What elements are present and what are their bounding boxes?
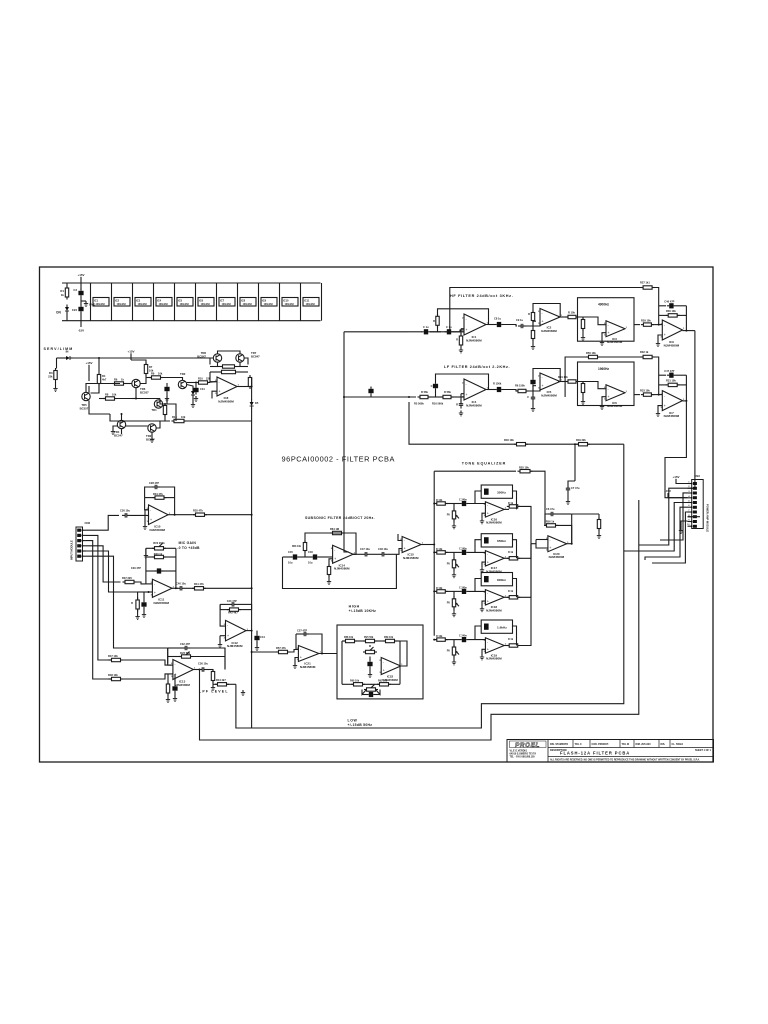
wire IC1 feedback xyxy=(438,309,489,325)
svg-text:R40 1k: R40 1k xyxy=(154,552,163,556)
svg-text:100nJ63: 100nJ63 xyxy=(306,304,316,306)
resistor R12 xyxy=(222,370,236,373)
resistor R47 out xyxy=(218,683,227,686)
EQ band 650Hz out wire xyxy=(518,544,531,559)
svg-text:-: - xyxy=(466,317,468,321)
svg-text:DIS. STAMPATO: DIS. STAMPATO xyxy=(550,743,568,746)
svg-text:R34 47k: R34 47k xyxy=(153,492,163,496)
svg-text:R: R xyxy=(456,338,458,342)
resistor R54 top xyxy=(520,470,530,473)
op-amp IC22 shelf xyxy=(381,658,401,675)
svg-text:R44 4k7: R44 4k7 xyxy=(216,678,226,682)
svg-text:C29 47P: C29 47P xyxy=(131,566,141,570)
power rail bottom xyxy=(62,320,321,322)
svg-text:C46 47P: C46 47P xyxy=(664,300,674,304)
wire IC15 out to bus xyxy=(421,544,434,546)
svg-text:R 10k: R 10k xyxy=(436,548,443,551)
resistor R43 in1 xyxy=(112,658,121,661)
fcap C30 xyxy=(164,387,169,391)
svg-text:CN2: CN2 xyxy=(85,521,91,525)
svg-text:R 10k: R 10k xyxy=(436,635,443,638)
capacitor C38 eq out xyxy=(550,512,552,516)
resistor R44 in2 xyxy=(112,677,121,680)
resistor IC2 gnd leg xyxy=(533,321,536,330)
ground xyxy=(55,382,57,386)
potentiometer RV6 box xyxy=(366,650,375,653)
connector CN2 xyxy=(76,527,83,561)
op-amp IC10 xyxy=(149,505,169,525)
GND node xyxy=(80,298,82,306)
svg-text:10u: 10u xyxy=(308,561,313,565)
op-amp IC13 lpf xyxy=(173,660,194,680)
svg-text:C44: C44 xyxy=(260,635,265,639)
svg-text:-: - xyxy=(404,539,406,543)
svg-text:R13: R13 xyxy=(172,415,177,419)
CN3 pin 5 xyxy=(688,502,692,504)
svg-text:+15V: +15V xyxy=(85,361,92,365)
svg-text:+: + xyxy=(219,389,221,393)
CN3 wire 1 xyxy=(639,488,688,545)
resistor R10 xyxy=(199,381,208,384)
svg-text:RV: RV xyxy=(447,601,451,604)
diode D5 xyxy=(250,402,254,406)
resistor R24 rung xyxy=(659,314,667,316)
bypass capacitor C9 xyxy=(219,298,235,307)
svg-text:R31 10k: R31 10k xyxy=(666,379,676,383)
svg-text:R57 47k: R57 47k xyxy=(276,646,286,650)
svg-text:NJM4580M: NJM4580M xyxy=(150,528,166,532)
drawing border frame xyxy=(40,267,714,762)
feedback box LPF xyxy=(167,648,169,663)
wire box left leg xyxy=(341,641,343,684)
wire mic out xyxy=(172,587,178,589)
svg-text:100nJ63: 100nJ63 xyxy=(285,304,295,306)
svg-text:HF FILTER 24dB/oct 3KHz.: HF FILTER 24dB/oct 3KHz. xyxy=(450,294,513,298)
EQ band 800Hz out wire xyxy=(518,544,531,598)
wire subsonic out xyxy=(353,553,362,555)
wire stage1 to stage2 xyxy=(98,384,100,394)
svg-text:C43 47P: C43 47P xyxy=(227,599,237,603)
svg-text:IC1: IC1 xyxy=(94,298,99,302)
potentiometer RV3 xyxy=(182,655,191,658)
wire TR3 emitter xyxy=(160,399,167,405)
svg-text:C 240n: C 240n xyxy=(459,635,467,638)
ground IC21 xyxy=(295,658,298,664)
wire pin5 link xyxy=(688,516,701,518)
svg-text:IC3: IC3 xyxy=(136,298,141,302)
svg-text:IC11: IC11 xyxy=(304,298,310,302)
EQ band 800Hz ground xyxy=(482,601,485,606)
svg-text:TR3: TR3 xyxy=(180,372,186,376)
svg-text:-: - xyxy=(300,648,302,652)
ground RV2 xyxy=(145,548,147,553)
svg-text:R: R xyxy=(433,319,435,323)
svg-text:R37 220: R37 220 xyxy=(122,576,132,580)
fcap C42 bottom xyxy=(369,692,373,697)
svg-text:TEL - FAX 0861/88.105: TEL - FAX 0861/88.105 xyxy=(510,756,536,759)
EQ band 650Hz op-amp xyxy=(485,551,504,566)
op-amp output node xyxy=(237,386,252,388)
svg-text:R3: R3 xyxy=(49,371,53,375)
resistor R51 lf loop2 xyxy=(643,355,652,358)
wire summing in xyxy=(531,543,536,545)
EQ band 800Hz fcap series xyxy=(462,589,466,594)
svg-text:100nJ63: 100nJ63 xyxy=(117,304,127,306)
svg-text:R 150k: R 150k xyxy=(493,382,502,386)
EQ band 1.6kHz output resistor xyxy=(504,645,509,647)
svg-text:C47 10u: C47 10u xyxy=(360,547,370,551)
CN3 wire 5 xyxy=(660,493,688,540)
svg-text:TR1: TR1 xyxy=(151,408,157,412)
EQ band 800Hz feedback box xyxy=(481,573,512,586)
capacitor C23 xyxy=(157,568,161,573)
CN2 wire fan 4 xyxy=(86,546,121,582)
svg-text:10k: 10k xyxy=(112,393,117,397)
resistor R61 box xyxy=(386,639,395,642)
svg-text:R42 4k7: R42 4k7 xyxy=(228,611,238,615)
EQ band 800Hz fcap xyxy=(484,576,489,582)
capacitor IC1a xyxy=(424,329,428,334)
EQ band 1.6kHz out wire xyxy=(518,544,531,646)
svg-text:100nJ63: 100nJ63 xyxy=(180,304,190,306)
svg-text:R33 10k: R33 10k xyxy=(640,388,650,392)
CN2 wire fan 2 xyxy=(86,535,108,660)
svg-text:RV5 50k: RV5 50k xyxy=(364,636,374,639)
svg-text:+: + xyxy=(487,648,489,652)
svg-text:+: + xyxy=(664,404,666,408)
transistor TR6 xyxy=(132,379,140,387)
svg-text:C36 10u: C36 10u xyxy=(198,662,208,666)
svg-text:R 10k: R 10k xyxy=(436,499,443,502)
op-amp IC15 buffer xyxy=(402,537,421,553)
wire R8 node xyxy=(115,398,132,400)
ground IC6a leg xyxy=(602,397,606,404)
ground CN3 xyxy=(681,521,688,528)
wire to EQ buffer xyxy=(396,549,402,555)
bypass capacitor C5 xyxy=(135,298,151,307)
op-amp IC6a xyxy=(606,385,625,401)
power rail top xyxy=(62,282,321,284)
op-amp IC8 xyxy=(217,377,237,396)
resistor R3 xyxy=(56,358,58,369)
svg-text:NJM4580M: NJM4580M xyxy=(486,608,502,612)
cap C31 xyxy=(193,388,198,392)
svg-text:NJM4580M: NJM4580M xyxy=(334,567,350,571)
LF input wire xyxy=(344,396,416,398)
svg-text:IN: IN xyxy=(66,350,69,354)
svg-text:+: + xyxy=(404,547,406,551)
resistor IC1 gnd leg xyxy=(461,328,464,330)
svg-text:-: - xyxy=(383,660,385,664)
bypass capacitor C8 xyxy=(198,298,214,307)
EQ band 350Hz box drop xyxy=(475,491,481,504)
resistor R25 hf loop xyxy=(643,286,652,289)
CN2 pin 2 xyxy=(82,535,84,537)
ground mark xyxy=(242,690,244,693)
svg-text:R47 10k: R47 10k xyxy=(108,654,118,658)
capacitor C2 xyxy=(80,279,82,290)
resistor R45 below xyxy=(167,674,169,684)
svg-text:+: + xyxy=(383,669,385,673)
svg-text:350Hz: 350Hz xyxy=(497,490,506,494)
capacitor C20 xyxy=(124,513,126,518)
resistor R39 out xyxy=(195,587,204,590)
EQ band 350Hz feedback box xyxy=(481,485,512,498)
svg-text:NJM4580M: NJM4580M xyxy=(486,521,502,525)
svg-text:R46 10k: R46 10k xyxy=(504,438,514,442)
EQ band 650Hz box drop xyxy=(475,540,481,553)
ground IC3b xyxy=(658,335,662,341)
resistor R21 xyxy=(568,315,576,318)
svg-text:IC7: IC7 xyxy=(220,298,225,302)
svg-text:10u: 10u xyxy=(288,561,293,565)
svg-text:R27 1k1: R27 1k1 xyxy=(640,281,650,285)
bypass capacitor C4 xyxy=(114,298,130,307)
svg-text:INPUT MODULE: INPUT MODULE xyxy=(70,540,74,560)
EQ band 1.6kHz pot xyxy=(453,640,455,648)
op-amp IC21 shelf in xyxy=(298,646,319,662)
resistor R13 long wire xyxy=(110,414,170,421)
wire input xyxy=(57,357,64,359)
bypass capacitor C3 xyxy=(93,298,109,307)
svg-text:+: + xyxy=(227,634,229,638)
svg-text:C 240n: C 240n xyxy=(459,547,467,550)
svg-text:+: + xyxy=(608,395,610,399)
resistor R63 bottom xyxy=(380,683,389,686)
shelf network box xyxy=(337,625,423,699)
title cell divider xyxy=(619,740,621,748)
left crossover bus wire xyxy=(344,332,349,552)
svg-text:SUBSONIC FILTER 24dB/OCT 20Hz.: SUBSONIC FILTER 24dB/OCT 20Hz. xyxy=(305,516,375,520)
svg-text:R63 10k: R63 10k xyxy=(292,545,302,548)
svg-text:+: + xyxy=(466,328,468,332)
resistor R1 xyxy=(66,283,68,287)
svg-text:100nJ63: 100nJ63 xyxy=(201,304,211,306)
EQ band 650Hz input resistor xyxy=(437,551,446,554)
capacitor C17 rung xyxy=(659,374,666,376)
svg-text:R58 10k: R58 10k xyxy=(344,636,354,639)
svg-text:C9 1u: C9 1u xyxy=(516,318,523,322)
svg-text:-: - xyxy=(150,508,152,512)
svg-text:POWER AMP MODULE: POWER AMP MODULE xyxy=(706,504,710,532)
svg-text:+/-15dB 10KHz: +/-15dB 10KHz xyxy=(349,609,377,613)
capacitor IC4b xyxy=(443,395,451,398)
svg-text:R 56k: R 56k xyxy=(421,390,428,394)
svg-text:-: - xyxy=(542,311,544,315)
svg-text:R5 560k: R5 560k xyxy=(414,402,424,406)
wire IC10 out xyxy=(168,514,195,516)
svg-text:R6 150k: R6 150k xyxy=(515,384,525,388)
wire HF input xyxy=(409,331,423,333)
capacitor C37 out xyxy=(381,552,383,557)
ground C7 xyxy=(598,533,600,536)
svg-text:R8: R8 xyxy=(105,393,109,397)
wire HF out down xyxy=(688,331,695,489)
capacitor IC4a xyxy=(420,395,428,398)
title cell divider xyxy=(658,740,660,748)
fcap C33 xyxy=(172,686,177,690)
resistor R56 fb xyxy=(547,524,556,527)
svg-text:1.6kHz: 1.6kHz xyxy=(497,625,507,629)
svg-text:-: - xyxy=(664,323,666,327)
bypass capacitor C11 xyxy=(261,298,277,307)
svg-text:R61 10k: R61 10k xyxy=(378,680,388,683)
op-amp IC4 xyxy=(464,379,486,400)
svg-text:R35 47k: R35 47k xyxy=(193,509,203,513)
svg-text:C: C xyxy=(527,395,529,399)
resistor R9 xyxy=(152,376,161,379)
resistor R26 xyxy=(581,384,584,393)
svg-text:NJM4580M: NJM4580M xyxy=(486,657,502,661)
CN2 wire fan 1 xyxy=(86,515,119,530)
svg-text:NJM4580M: NJM4580M xyxy=(607,404,623,408)
op-amp IC3b xyxy=(662,320,682,340)
connector CN3 xyxy=(692,480,704,529)
fcap C8 xyxy=(497,322,501,327)
resistor notch leg xyxy=(602,333,606,340)
capacitor IC1b xyxy=(447,329,451,334)
fcap C16 node xyxy=(532,386,534,391)
svg-text:CL. 5602A: CL. 5602A xyxy=(672,743,684,746)
capacitor C41 box xyxy=(369,657,371,661)
svg-text:+: + xyxy=(150,518,152,522)
capacitor C27 47P xyxy=(231,602,233,607)
CN3 pin 2 xyxy=(688,487,692,489)
svg-text:+: + xyxy=(542,384,544,388)
svg-text:-: - xyxy=(549,538,551,542)
resistor R35 xyxy=(196,513,205,516)
wire collector bus xyxy=(136,388,160,399)
svg-text:4k7: 4k7 xyxy=(102,378,107,382)
svg-text:R: R xyxy=(528,312,530,316)
wire LF out down xyxy=(665,401,688,498)
subsonic feedback xyxy=(305,533,356,554)
title block outer xyxy=(507,740,714,763)
wire lpf out xyxy=(193,669,199,671)
svg-text:-: - xyxy=(487,640,489,644)
svg-text:R: R xyxy=(131,601,133,605)
resistor R6 xyxy=(115,382,124,385)
svg-text:C24: C24 xyxy=(72,308,78,312)
svg-text:R 1k: R 1k xyxy=(508,638,514,641)
EQ band 650Hz feedback box xyxy=(481,534,512,547)
svg-text:-: - xyxy=(174,663,176,667)
resistor R8 xyxy=(106,397,115,400)
capacitor C39 xyxy=(566,487,570,489)
resistor R29 rung xyxy=(659,384,667,386)
CN3 pin 3 xyxy=(688,492,692,494)
resistor R57 xyxy=(597,520,600,529)
svg-text:NJM4580M: NJM4580M xyxy=(466,338,482,342)
HF stage 2 group xyxy=(526,322,540,326)
CN2 pin 6 xyxy=(82,555,84,557)
svg-text:R64 1M: R64 1M xyxy=(330,527,339,531)
title cell divider xyxy=(589,740,591,748)
svg-text:+: + xyxy=(664,333,666,337)
svg-text:R55 10k: R55 10k xyxy=(519,466,529,470)
EQ band 350Hz fcap series xyxy=(462,501,466,506)
transistor TR4 xyxy=(117,420,125,428)
capacitor IC5 gnd leg xyxy=(533,386,536,395)
EQ band 350Hz output resistor xyxy=(504,508,509,510)
wire EQ out up xyxy=(571,514,573,544)
EQ band 1.6kHz fcap series xyxy=(462,637,466,642)
capacitor C10 rung xyxy=(659,305,666,307)
wire IC4 input xyxy=(428,396,443,398)
svg-text:RV2 200k: RV2 200k xyxy=(153,541,165,545)
CN3 pin 9 xyxy=(688,521,692,523)
svg-text:+: + xyxy=(487,512,489,516)
svg-text:R 1k: R 1k xyxy=(508,590,514,593)
svg-text:BC847: BC847 xyxy=(251,354,260,358)
ground TR2 xyxy=(151,432,153,437)
resistor R53 fb xyxy=(333,531,342,534)
svg-text:-0 TO +45dB: -0 TO +45dB xyxy=(177,546,200,550)
EQ band 350Hz ground xyxy=(482,513,485,518)
long wire servo output to lower section xyxy=(251,408,253,728)
CN3 pin 6 xyxy=(688,506,692,508)
op-amp IC11 mic xyxy=(152,579,172,597)
resistor R28 plus feed xyxy=(634,394,640,396)
feedback loop IC10 xyxy=(145,498,149,510)
wire IC5 out xyxy=(560,381,568,383)
EQ band 800Hz output resistor xyxy=(504,596,509,598)
op-amp IC5 xyxy=(540,373,560,390)
bypass capacitor C13 xyxy=(303,298,319,307)
resistor R22 xyxy=(581,320,584,329)
wire route A xyxy=(236,444,624,728)
capacitor C9 xyxy=(520,324,522,328)
title cell divider xyxy=(669,740,671,748)
svg-text:C28 47P: C28 47P xyxy=(149,481,159,485)
svg-text:+: + xyxy=(300,656,302,660)
svg-text:CN3: CN3 xyxy=(694,474,700,478)
resistor R49 route xyxy=(409,402,517,444)
fcap C25 below xyxy=(141,602,146,606)
wire EQ top right xyxy=(574,444,576,481)
wire IC22 out xyxy=(400,641,407,666)
svg-text:C40 10u: C40 10u xyxy=(176,582,186,586)
svg-text:R 1k: R 1k xyxy=(508,551,514,554)
CN3 wire 4 xyxy=(652,512,688,563)
EQ band 350Hz op-amp xyxy=(485,502,504,517)
svg-text:R32 1k: R32 1k xyxy=(640,350,649,354)
resistor R52 node up xyxy=(304,551,306,557)
wire summing out xyxy=(567,543,572,545)
bypass capacitor C7 xyxy=(177,298,193,307)
EQ band 650Hz output resistor xyxy=(504,557,509,559)
zener D4 xyxy=(251,378,253,387)
svg-text:-15V: -15V xyxy=(78,329,84,333)
svg-text:IC2: IC2 xyxy=(115,298,120,302)
EQ band 350Hz input resistor xyxy=(437,502,446,505)
EQ band 650Hz fcap series xyxy=(462,550,466,555)
svg-text:C 1u: C 1u xyxy=(423,325,429,329)
resistor R58 in xyxy=(279,650,288,653)
title cell divider xyxy=(572,740,574,748)
svg-text:+: + xyxy=(549,546,551,550)
svg-text:SHEET 1 OF 1: SHEET 1 OF 1 xyxy=(695,749,712,752)
svg-text:NJM4580M: NJM4580M xyxy=(607,340,623,344)
svg-text:TAV. C: TAV. C xyxy=(575,743,583,746)
svg-text:-: - xyxy=(154,582,156,586)
resistor R4 xyxy=(97,375,100,384)
svg-text:C 240n: C 240n xyxy=(459,586,467,589)
wire TR1 junction xyxy=(132,398,137,400)
svg-text:COD. PRODOT.: COD. PRODOT. xyxy=(592,743,610,746)
op-amp IC20 summing xyxy=(548,536,567,552)
svg-text:-: - xyxy=(487,504,489,508)
